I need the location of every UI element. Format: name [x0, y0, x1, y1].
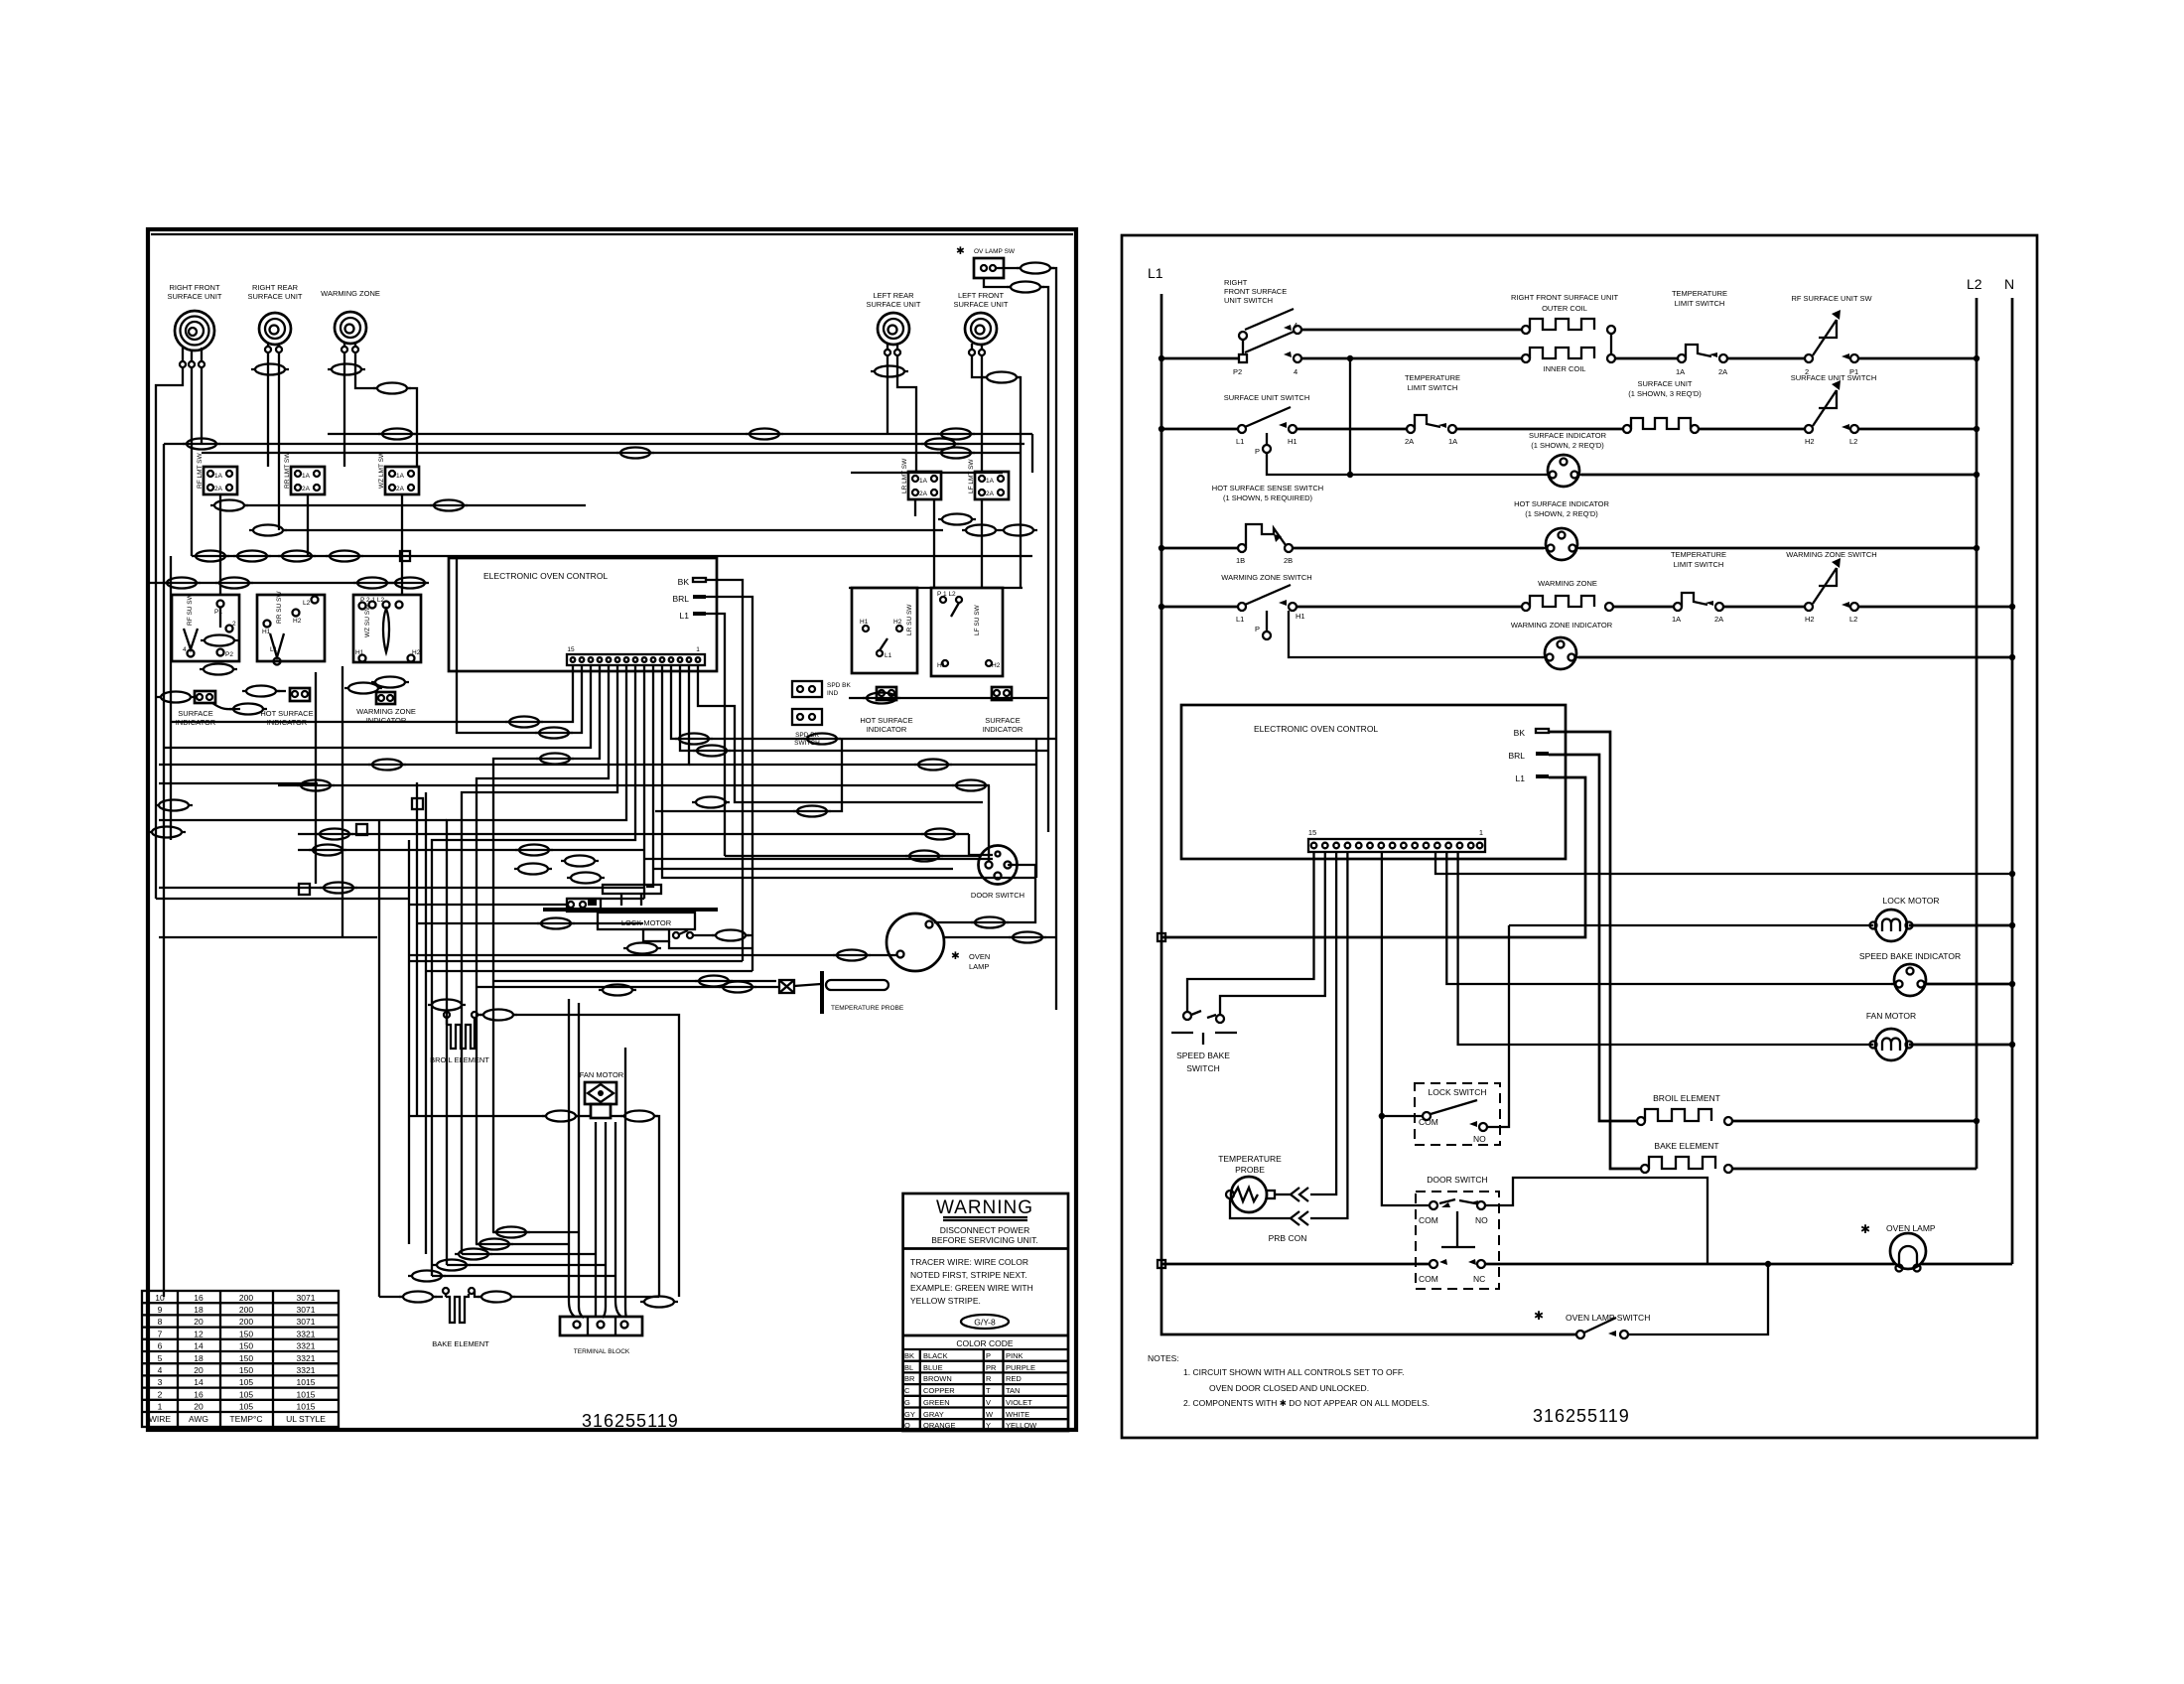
- resistor warming zone: [1297, 579, 1613, 611]
- svg-text:INDICATOR: INDICATOR: [366, 716, 407, 725]
- svg-text:OUTER COIL: OUTER COIL: [1542, 304, 1587, 313]
- wire strip terminal 14 to speed bake switch: [1220, 852, 1325, 1015]
- svg-text:✱: ✱: [956, 245, 965, 257]
- wire lock area: [409, 904, 567, 906]
- svg-text:8: 8: [158, 1317, 163, 1327]
- svg-text:200: 200: [239, 1317, 253, 1327]
- box LF limit switch: [968, 459, 1009, 499]
- svg-text:LIMIT SWITCH: LIMIT SWITCH: [1674, 560, 1724, 569]
- wire lock to right: [669, 941, 752, 948]
- wire eoc drop middle to lock area: [643, 665, 645, 899]
- box LF SU SW: [931, 588, 1003, 676]
- svg-text:20: 20: [194, 1317, 204, 1327]
- svg-text:105: 105: [239, 1389, 253, 1399]
- lamp hot surface indicator right: [860, 687, 912, 734]
- svg-text:COPPER: COPPER: [923, 1386, 955, 1395]
- switch oven lamp switch: [1534, 1264, 1768, 1338]
- motor fan motor: [1866, 1011, 2015, 1060]
- svg-text:2: 2: [158, 1389, 163, 1399]
- svg-text:HOT SURFACE INDICATOR: HOT SURFACE INDICATOR: [1514, 499, 1609, 508]
- wire LB/LF box feeds: [851, 472, 1003, 474]
- motor lock motor assembly: [543, 885, 752, 941]
- svg-text:SURFACE UNIT SWITCH: SURFACE UNIT SWITCH: [1791, 373, 1877, 382]
- svg-text:H2: H2: [1805, 437, 1815, 446]
- svg-text:2A: 2A: [302, 486, 311, 492]
- wire RF leads: [156, 367, 183, 899]
- svg-text:SURFACE: SURFACE: [178, 709, 212, 718]
- svg-text:H1: H1: [860, 619, 869, 626]
- box RR limit switch: [284, 452, 325, 494]
- svg-text:4: 4: [1294, 321, 1297, 330]
- svg-text:P: P: [1255, 625, 1260, 633]
- svg-text:150: 150: [239, 1341, 253, 1351]
- wire fan right: [611, 1115, 624, 1117]
- svg-text:1: 1: [696, 646, 700, 653]
- switch RF surface unit sw: [1727, 294, 1979, 376]
- svg-text:TAN: TAN: [1006, 1386, 1020, 1395]
- svg-text:1015: 1015: [297, 1377, 316, 1387]
- box RR SU SW: [257, 591, 325, 665]
- resistor bake element: [1641, 1141, 1977, 1173]
- wire strip terminal 15 to speed bake switch: [1187, 852, 1314, 1012]
- wire oven lamp row: [1161, 1263, 1430, 1266]
- svg-text:(1 SHOWN, 2 REQ'D): (1 SHOWN, 2 REQ'D): [1525, 509, 1598, 518]
- svg-text:3: 3: [158, 1377, 163, 1387]
- svg-text:2A: 2A: [214, 486, 223, 492]
- svg-text:1A: 1A: [919, 478, 928, 485]
- switch warming zone switch row4: [1159, 573, 1312, 639]
- wire strip to lock switch and door switch: [1382, 852, 1430, 1205]
- wire strip to fan motor: [1458, 852, 1873, 1045]
- svg-text:UL STYLE: UL STYLE: [286, 1414, 326, 1424]
- wire BRL to broil element: [1549, 755, 1637, 1121]
- lamp surface indicator left: [157, 691, 267, 727]
- svg-text:1A: 1A: [214, 473, 223, 480]
- svg-text:LR SU SW: LR SU SW: [906, 604, 913, 635]
- wire eoc drop t11: [477, 665, 609, 1244]
- svg-text:C: C: [904, 1386, 910, 1395]
- svg-text:PR: PR: [986, 1363, 997, 1372]
- svg-text:PURPLE: PURPLE: [1006, 1363, 1035, 1372]
- svg-text:FRONT SURFACE: FRONT SURFACE: [1224, 287, 1287, 296]
- wire long row y791: [278, 784, 989, 786]
- wire eoc drop t12: [493, 665, 600, 1232]
- svg-text:BAKE ELEMENT: BAKE ELEMENT: [1654, 1141, 1718, 1151]
- svg-text:3321: 3321: [297, 1329, 316, 1338]
- svg-text:LF SU SW: LF SU SW: [974, 604, 981, 635]
- svg-text:NC: NC: [1473, 1274, 1485, 1284]
- svg-text:OVEN LAMP: OVEN LAMP: [1886, 1223, 1936, 1233]
- lamp oven lamp left page: [887, 913, 990, 971]
- svg-text:L1: L1: [885, 652, 892, 659]
- wire broil right: [478, 1014, 483, 1016]
- svg-text:1: 1: [1479, 828, 1483, 837]
- wire bus y456: [202, 452, 1021, 454]
- switch temperature limit switch row2: [1297, 373, 1460, 446]
- wire BRL out left: [706, 597, 752, 971]
- svg-text:HOT SURFACE: HOT SURFACE: [260, 709, 313, 718]
- terminal block: [560, 1317, 642, 1355]
- wire RR leads: [267, 352, 269, 467]
- wire L1 pin to L1 rail: [1161, 777, 1585, 937]
- svg-text:SURFACE UNIT: SURFACE UNIT: [1637, 379, 1692, 388]
- wire right mid rows: [849, 697, 1048, 699]
- svg-text:FAN MOTOR: FAN MOTOR: [1866, 1011, 1916, 1021]
- svg-text:WARMING ZONE: WARMING ZONE: [1538, 579, 1597, 588]
- svg-text:16: 16: [194, 1293, 204, 1303]
- wire BK out left: [706, 580, 743, 961]
- lamp hot surface indicator: [1293, 499, 1979, 560]
- svg-text:Y: Y: [986, 1421, 991, 1430]
- resistor right front surface unit outer coil: [1301, 293, 1618, 354]
- svg-text:WARMING ZONE SWITCH: WARMING ZONE SWITCH: [1221, 573, 1311, 582]
- switch lock switch: [1415, 925, 1509, 1145]
- svg-text:15: 15: [1308, 828, 1316, 837]
- svg-text:W: W: [986, 1410, 994, 1419]
- svg-text:RED: RED: [1006, 1374, 1022, 1383]
- svg-text:TEMPERATURE: TEMPERATURE: [1405, 373, 1460, 382]
- svg-text:14: 14: [194, 1377, 204, 1387]
- svg-text:150: 150: [239, 1353, 253, 1363]
- svg-text:SWITCH: SWITCH: [1186, 1063, 1220, 1073]
- notes: [1148, 1353, 1430, 1408]
- surface unit warming zone coil: [321, 289, 380, 352]
- svg-text:H2: H2: [992, 662, 1001, 669]
- svg-text:G: G: [904, 1398, 910, 1407]
- svg-text:4: 4: [1294, 367, 1297, 376]
- svg-text:2A: 2A: [396, 486, 405, 492]
- svg-text:10: 10: [155, 1293, 165, 1303]
- switch lock sw small box: [567, 899, 601, 912]
- svg-text:FAN MOTOR: FAN MOTOR: [580, 1070, 624, 1079]
- svg-text:H1: H1: [1288, 437, 1297, 446]
- svg-text:200: 200: [239, 1293, 253, 1303]
- lamp hot surface indicator left: [242, 686, 314, 728]
- wire oven lamp left feed: [409, 954, 896, 956]
- svg-text:BRL: BRL: [1508, 751, 1525, 761]
- svg-text:105: 105: [239, 1402, 253, 1412]
- svg-text:H2: H2: [893, 619, 902, 626]
- resistor broil element: [1637, 1093, 1979, 1125]
- wire strip to speed bake indicator: [1446, 852, 1894, 984]
- svg-text:16: 16: [194, 1389, 204, 1399]
- svg-text:P2: P2: [225, 651, 233, 658]
- svg-text:LEFT REAR: LEFT REAR: [873, 291, 914, 300]
- svg-text:✱: ✱: [951, 950, 960, 962]
- svg-text:2. COMPONENTS WITH ✱ DO N: 2. COMPONENTS WITH ✱ DO NOT APPEAR ON AL…: [1183, 1398, 1430, 1408]
- svg-text:L2: L2: [1849, 615, 1857, 624]
- lamp surface indicator: [1267, 431, 1979, 487]
- svg-text:5: 5: [158, 1353, 163, 1363]
- wire gy oval under box A: [219, 494, 221, 556]
- svg-text:BRL: BRL: [672, 594, 689, 604]
- wire bake right to bottom row: [475, 1291, 481, 1297]
- svg-text:WARMING ZONE INDICATOR: WARMING ZONE INDICATOR: [1511, 621, 1613, 630]
- svg-text:150: 150: [239, 1365, 253, 1375]
- wire eoc drop t15: [171, 665, 573, 722]
- svg-text:1015: 1015: [297, 1402, 316, 1412]
- switch hot surface sense switch: [1159, 484, 1323, 565]
- svg-text:L1: L1: [1148, 265, 1163, 281]
- svg-text:1015: 1015: [297, 1389, 316, 1399]
- wire staircase rows to terminal block: [493, 1231, 579, 1233]
- svg-text:BROIL ELEMENT: BROIL ELEMENT: [1653, 1093, 1720, 1103]
- svg-text:IND: IND: [827, 690, 839, 697]
- svg-text:H1: H1: [1296, 612, 1305, 621]
- svg-text:RIGHT FRONT: RIGHT FRONT: [169, 283, 220, 292]
- svg-text:TEMPERATURE: TEMPERATURE: [1672, 289, 1727, 298]
- svg-text:3071: 3071: [297, 1317, 316, 1327]
- svg-text:(1 SHOWN, 3 REQ'D): (1 SHOWN, 3 REQ'D): [1628, 389, 1702, 398]
- svg-text:H1: H1: [355, 649, 364, 656]
- svg-text:150: 150: [239, 1329, 253, 1338]
- svg-text:SPEED BAKE INDICATOR: SPEED BAKE INDICATOR: [1859, 951, 1961, 961]
- terminal strip of EOC left: [567, 646, 705, 665]
- svg-text:1A: 1A: [1448, 437, 1457, 446]
- box electronic oven control left: [449, 558, 717, 671]
- svg-text:HOT SURFACE SENSE SWITCH: HOT SURFACE SENSE SWITCH: [1212, 484, 1323, 492]
- wire strip to temperature probe lower: [1310, 852, 1347, 1218]
- svg-text:3071: 3071: [297, 1305, 316, 1315]
- switch spd bk switch: [792, 709, 822, 747]
- terminal strip of EOC: [1308, 828, 1485, 852]
- svg-text:3071: 3071: [297, 1293, 316, 1303]
- svg-text:1A: 1A: [396, 473, 405, 480]
- svg-text:✱: ✱: [1534, 1309, 1544, 1323]
- svg-text:DISCONNECT POWER: DISCONNECT POWER: [940, 1225, 1030, 1235]
- svg-text:P: P: [986, 1351, 991, 1360]
- svg-text:TRACER WIRE: WIRE COLOR: TRACER WIRE: WIRE COLOR: [910, 1257, 1028, 1267]
- svg-text:BLUE: BLUE: [923, 1363, 943, 1372]
- switch surface unit switch right row2: [1699, 373, 1979, 446]
- svg-text:SURFACE UNIT: SURFACE UNIT: [167, 292, 221, 301]
- connector PRB CON chevrons: [1291, 1188, 1308, 1225]
- svg-text:WARMING ZONE: WARMING ZONE: [356, 707, 416, 716]
- svg-text:4: 4: [158, 1365, 163, 1375]
- svg-text:O: O: [904, 1421, 910, 1430]
- svg-text:P 1 L2: P 1 L2: [937, 591, 956, 598]
- svg-text:INDICATOR: INDICATOR: [983, 725, 1024, 734]
- switch right front surface unit switch: [1159, 278, 1301, 376]
- resistor surface unit row2: [1456, 379, 1702, 433]
- svg-text:9: 9: [158, 1305, 163, 1315]
- thermistor temperature probe left: [779, 971, 904, 1014]
- box RF SU SW: [172, 593, 239, 661]
- svg-text:7: 7: [158, 1329, 163, 1338]
- svg-text:SURFACE UNIT: SURFACE UNIT: [953, 300, 1008, 309]
- box electronic oven control: [1181, 705, 1566, 859]
- box LB SU SW: [852, 588, 917, 673]
- wire from contact 4 down to indicator feed: [1349, 358, 1351, 475]
- wire LF leads: [972, 355, 987, 377]
- wire under box B: [307, 494, 309, 556]
- svg-text:LEFT FRONT: LEFT FRONT: [958, 291, 1005, 300]
- wire rows left cluster: [159, 782, 318, 784]
- svg-text:BK: BK: [678, 577, 690, 587]
- svg-text:2A: 2A: [1405, 437, 1414, 446]
- svg-text:200: 200: [239, 1305, 253, 1315]
- svg-text:RIGHT FRONT SURFACE UNIT: RIGHT FRONT SURFACE UNIT: [1511, 293, 1618, 302]
- svg-text:GREEN: GREEN: [923, 1398, 950, 1407]
- box WZ SW: [353, 595, 421, 662]
- svg-text:P2: P2: [1233, 367, 1242, 376]
- wire LB leads: [887, 355, 888, 434]
- surface unit LB coil: [866, 291, 920, 355]
- svg-text:AWG: AWG: [189, 1414, 208, 1424]
- surface unit RF coil: [167, 283, 221, 367]
- svg-text:20: 20: [194, 1402, 204, 1412]
- svg-text:SPEED BAKE: SPEED BAKE: [1176, 1051, 1230, 1060]
- wire under box C: [401, 494, 403, 594]
- svg-text:DOOR SWITCH: DOOR SWITCH: [1427, 1175, 1487, 1185]
- page frame right: [1122, 235, 2037, 1438]
- svg-text:1B: 1B: [1236, 556, 1245, 565]
- table color code: [903, 1349, 1068, 1431]
- svg-text:N: N: [2004, 276, 2014, 292]
- svg-text:WZ LMT SW: WZ LMT SW: [378, 451, 385, 489]
- svg-text:LF LMT SW: LF LMT SW: [968, 459, 975, 493]
- svg-text:18: 18: [194, 1353, 204, 1363]
- svg-text:6: 6: [158, 1341, 163, 1351]
- svg-text:TEMP°C: TEMP°C: [229, 1414, 262, 1424]
- svg-text:2A: 2A: [1718, 367, 1727, 376]
- svg-text:3321: 3321: [297, 1353, 316, 1363]
- svg-text:L2: L2: [303, 600, 311, 607]
- svg-text:SURFACE UNIT: SURFACE UNIT: [866, 300, 920, 309]
- resistor bake element: [432, 1288, 489, 1348]
- svg-text:(1 SHOWN, 2 REQ'D): (1 SHOWN, 2 REQ'D): [1531, 441, 1604, 450]
- svg-text:SURFACE UNIT: SURFACE UNIT: [247, 292, 302, 301]
- wire L2 rail: [1976, 298, 1979, 1169]
- svg-text:BR: BR: [904, 1374, 915, 1383]
- wire bus y447: [164, 443, 1024, 445]
- svg-text:TEMPERATURE: TEMPERATURE: [1671, 550, 1726, 559]
- wire eoc drop t10: [462, 665, 617, 1254]
- wire strip to temperature probe upper: [1310, 852, 1336, 1194]
- svg-text:L1: L1: [680, 611, 690, 621]
- svg-text:INNER COIL: INNER COIL: [1544, 364, 1586, 373]
- svg-text:2: 2: [232, 621, 236, 628]
- lamp warming zone indicator left: [344, 677, 416, 726]
- svg-text:RR SU SW: RR SU SW: [276, 591, 283, 624]
- svg-text:H2: H2: [1805, 615, 1815, 624]
- svg-text:TERMINAL BLOCK: TERMINAL BLOCK: [574, 1348, 630, 1355]
- svg-text:ELECTRONIC OVEN CONTROL: ELECTRONIC OVEN CONTROL: [483, 571, 608, 581]
- svg-text:BLACK: BLACK: [923, 1351, 948, 1360]
- svg-text:L1: L1: [1236, 437, 1244, 446]
- svg-text:YELLOW STRIPE.: YELLOW STRIPE.: [910, 1296, 981, 1306]
- wire fan left: [409, 1115, 546, 1117]
- svg-text:SURFACE UNIT SWITCH: SURFACE UNIT SWITCH: [1224, 393, 1310, 402]
- svg-text:1A: 1A: [1672, 615, 1681, 624]
- svg-text:NOTED FIRST, STRIPE NEXT.: NOTED FIRST, STRIPE NEXT.: [910, 1270, 1027, 1280]
- box RF limit switch: [197, 453, 237, 494]
- svg-text:COM: COM: [1419, 1274, 1438, 1284]
- switch temperature limit switch row1: [1615, 289, 1727, 376]
- svg-text:YELLOW: YELLOW: [1006, 1421, 1037, 1430]
- switch door switch: [1416, 1175, 1707, 1289]
- svg-text:HOT SURFACE: HOT SURFACE: [860, 716, 912, 725]
- svg-text:105: 105: [239, 1377, 253, 1387]
- svg-text:NO: NO: [1475, 1215, 1488, 1225]
- svg-text:18: 18: [194, 1305, 204, 1315]
- wire row y817: [655, 739, 842, 811]
- svg-text:OVEN: OVEN: [969, 952, 990, 961]
- box warning: [903, 1193, 1068, 1431]
- wire BK to bake element: [1549, 732, 1641, 1169]
- wire N rail: [2011, 298, 2014, 1264]
- svg-text:PROBE: PROBE: [1235, 1165, 1265, 1175]
- svg-text:INDICATOR: INDICATOR: [867, 725, 907, 734]
- svg-text:EXAMPLE: GREEN WIRE WITH: EXAMPLE: GREEN WIRE WITH: [910, 1283, 1033, 1293]
- wire door switch feeds: [988, 785, 990, 862]
- wire strip to N rail row: [1435, 852, 2012, 874]
- svg-text:DOOR SWITCH: DOOR SWITCH: [971, 891, 1024, 900]
- wire probe feeds: [493, 980, 776, 982]
- svg-text:V: V: [986, 1398, 991, 1407]
- motor lock motor: [1509, 896, 2015, 941]
- svg-text:BROIL ELEMENT: BROIL ELEMENT: [430, 1055, 489, 1064]
- svg-text:316255119: 316255119: [582, 1411, 679, 1431]
- wire eoc drop t9: [447, 665, 626, 1265]
- svg-text:COLOR CODE: COLOR CODE: [956, 1338, 1013, 1348]
- svg-text:BEFORE SERVICING UNIT.: BEFORE SERVICING UNIT.: [931, 1235, 1038, 1245]
- svg-text:VIOLET: VIOLET: [1006, 1398, 1032, 1407]
- svg-text:2A: 2A: [1714, 615, 1723, 624]
- svg-text:NO: NO: [1473, 1134, 1486, 1144]
- wire long row y840: [298, 833, 969, 835]
- svg-text:1A: 1A: [986, 478, 995, 485]
- svg-text:LIMIT SWITCH: LIMIT SWITCH: [1675, 299, 1725, 308]
- svg-text:L2: L2: [1967, 276, 1982, 292]
- svg-text:R: R: [986, 1374, 992, 1383]
- svg-text:4: 4: [183, 646, 187, 653]
- svg-text:LAMP: LAMP: [969, 962, 989, 971]
- svg-text:RIGHT: RIGHT: [1224, 278, 1248, 287]
- svg-text:1A: 1A: [1676, 367, 1685, 376]
- svg-text:RF LMT SW: RF LMT SW: [197, 453, 204, 489]
- svg-text:BROWN: BROWN: [923, 1374, 952, 1383]
- table wire gauge: [142, 1291, 339, 1427]
- svg-text:P: P: [1255, 447, 1260, 456]
- svg-text:H2: H2: [412, 649, 421, 656]
- svg-text:2A: 2A: [986, 491, 995, 497]
- surface unit LF coil: [953, 291, 1008, 355]
- svg-text:15: 15: [567, 646, 575, 653]
- resistor broil element: [428, 1000, 489, 1065]
- svg-text:1A: 1A: [302, 473, 311, 480]
- svg-text:L1: L1: [1236, 615, 1244, 624]
- svg-text:ORANGE: ORANGE: [923, 1421, 956, 1430]
- switch spd bk ind: [792, 681, 852, 697]
- svg-text:14: 14: [194, 1341, 204, 1351]
- svg-text:2B: 2B: [1284, 556, 1293, 565]
- svg-text:(1 SHOWN, 5 REQUIRED): (1 SHOWN, 5 REQUIRED): [1223, 493, 1313, 502]
- svg-text:H1: H1: [937, 662, 946, 669]
- wire L1 out left: [706, 614, 725, 856]
- svg-text:RF SU SW: RF SU SW: [187, 593, 194, 626]
- svg-text:LOCK MOTOR: LOCK MOTOR: [1883, 896, 1940, 906]
- wire bundle down to terminal block: [569, 999, 575, 1317]
- svg-text:L1: L1: [1516, 773, 1526, 783]
- svg-text:SURFACE INDICATOR: SURFACE INDICATOR: [1529, 431, 1607, 440]
- svg-text:LOCK SWITCH: LOCK SWITCH: [1428, 1087, 1486, 1097]
- lamp surface indicator right: [983, 687, 1024, 734]
- svg-text:UNIT SWITCH: UNIT SWITCH: [1224, 296, 1273, 305]
- connector square blocks: [412, 798, 423, 809]
- wire big bus y560: [195, 555, 1032, 557]
- svg-text:BAKE ELEMENT: BAKE ELEMENT: [432, 1339, 489, 1348]
